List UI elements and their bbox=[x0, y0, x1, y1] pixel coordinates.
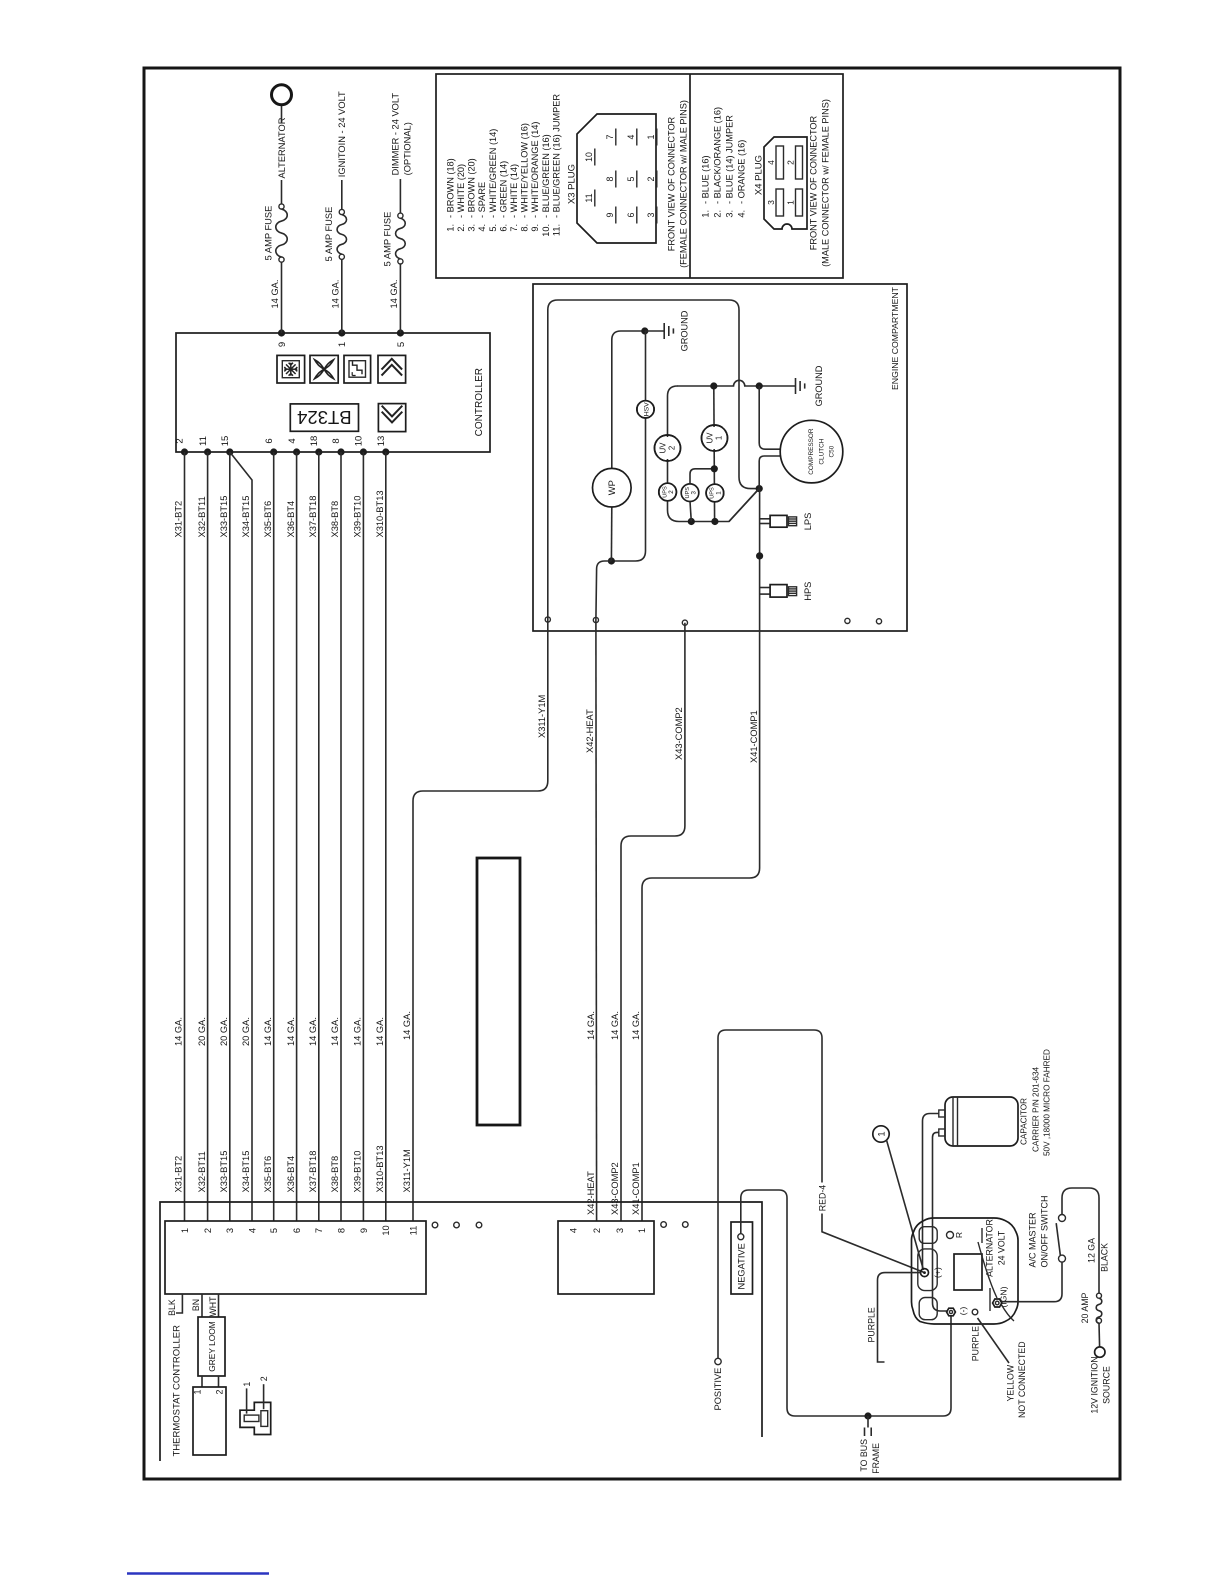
svg-text:3.: 3. bbox=[467, 224, 477, 232]
wire UV2 chain bbox=[668, 386, 760, 522]
svg-text:ON/OFF SWITCH: ON/OFF SWITCH bbox=[1039, 1196, 1049, 1268]
svg-text:2: 2 bbox=[203, 1228, 213, 1233]
svg-text:X42-HEAT: X42-HEAT bbox=[586, 1171, 596, 1215]
svg-text:(-): (-) bbox=[958, 1307, 968, 1316]
svg-text:3: 3 bbox=[690, 490, 697, 494]
svg-text:2: 2 bbox=[646, 176, 656, 181]
svg-text:- BLUE/GREEN (16) JUMPER: - BLUE/GREEN (16) JUMPER bbox=[551, 94, 561, 218]
svg-text:20 GA.: 20 GA. bbox=[241, 1017, 251, 1046]
spare junction rectangle bbox=[477, 858, 520, 1125]
svg-text:- BROWN (20): - BROWN (20) bbox=[467, 158, 477, 218]
svg-text:1: 1 bbox=[180, 1228, 190, 1233]
svg-text:X38-BT8: X38-BT8 bbox=[330, 501, 340, 538]
svg-text:X35-BT6: X35-BT6 bbox=[263, 1156, 273, 1193]
svg-text:- SPARE: - SPARE bbox=[477, 182, 487, 218]
svg-text:14 GA.: 14 GA. bbox=[308, 1017, 318, 1046]
controller pin 13 junction bbox=[382, 448, 389, 455]
svg-text:1: 1 bbox=[637, 1228, 647, 1233]
X3 spare pad 2 bbox=[454, 1222, 460, 1228]
svg-text:IGNITOIN - 24 VOLT: IGNITOIN - 24 VOLT bbox=[337, 91, 347, 177]
svg-text:14 GA.: 14 GA. bbox=[270, 280, 280, 309]
svg-text:13: 13 bbox=[376, 436, 387, 447]
blue footer rule bbox=[127, 1572, 269, 1574]
svg-text:SOURCE: SOURCE bbox=[1101, 1366, 1111, 1404]
svg-text:X39-BT10: X39-BT10 bbox=[353, 1151, 363, 1193]
svg-text:BLK: BLK bbox=[167, 1299, 177, 1316]
page border frame bbox=[144, 68, 1120, 1479]
wire loom to thermostat pin2 bbox=[218, 1376, 220, 1387]
thermostat body bbox=[193, 1387, 226, 1455]
POSITIVE terminal bbox=[715, 1358, 721, 1364]
svg-text:- BLACK/ORANGE (16): - BLACK/ORANGE (16) bbox=[712, 107, 722, 204]
legend box outline bbox=[436, 74, 843, 278]
svg-text:- WHITE/ORANGE (14): - WHITE/ORANGE (14) bbox=[530, 122, 540, 218]
frame ground symbol bbox=[867, 1416, 869, 1428]
wire X37-BT18 bbox=[318, 452, 320, 1221]
spare pad 2 on engine box edge bbox=[876, 619, 881, 624]
pad X311-Y1M on engine box edge bbox=[545, 617, 550, 622]
junction node J1 bbox=[756, 485, 763, 492]
svg-text:5 AMP FUSE: 5 AMP FUSE bbox=[382, 212, 392, 267]
wire loom to thermostat pin1 bbox=[201, 1376, 203, 1387]
svg-text:14 GA.: 14 GA. bbox=[330, 280, 340, 309]
controller BT324 display bbox=[290, 404, 358, 431]
svg-text:10: 10 bbox=[354, 436, 365, 447]
svg-text:DIMMER - 24 VOLT: DIMMER - 24 VOLT bbox=[391, 93, 401, 176]
svg-text:UV: UV bbox=[659, 442, 668, 454]
svg-text:- WHITE/YELLOW (16): - WHITE/YELLOW (16) bbox=[520, 123, 530, 218]
alternator IGN terminal bbox=[993, 1299, 1002, 1307]
svg-text:ALTERNATOR: ALTERNATOR bbox=[277, 117, 287, 178]
pressure switch UPS1 bbox=[706, 484, 724, 502]
junction UV1-bus bbox=[710, 382, 717, 389]
wire UV1 chain bbox=[713, 386, 716, 522]
wire UPS3 to bus bbox=[690, 502, 691, 522]
svg-text:X33-BT15: X33-BT15 bbox=[219, 496, 229, 538]
svg-text:4.: 4. bbox=[736, 210, 746, 218]
capacitor terminal tabs bbox=[939, 1110, 945, 1117]
spare pad 1 on engine box edge bbox=[845, 618, 850, 623]
connector icon pin 2 leader bbox=[263, 1384, 265, 1409]
svg-text:RED-4: RED-4 bbox=[817, 1185, 827, 1212]
svg-text:3.: 3. bbox=[724, 210, 734, 218]
svg-text:1: 1 bbox=[715, 491, 722, 495]
svg-text:14 GA.: 14 GA. bbox=[389, 280, 399, 309]
svg-text:X41-COMP1: X41-COMP1 bbox=[631, 1162, 641, 1215]
pressure switch HPS bbox=[760, 587, 771, 589]
svg-text:POSITIVE: POSITIVE bbox=[713, 1368, 723, 1411]
svg-text:1.: 1. bbox=[700, 210, 710, 218]
svg-text:NOT CONNECTED: NOT CONNECTED bbox=[1017, 1341, 1027, 1418]
svg-text:GROUND: GROUND bbox=[680, 310, 690, 351]
svg-text:24 VOLT: 24 VOLT bbox=[996, 1230, 1006, 1265]
svg-text:PURPLE: PURPLE bbox=[970, 1326, 980, 1361]
controller pin 6 junction bbox=[270, 448, 277, 455]
svg-text:8: 8 bbox=[605, 176, 615, 181]
svg-text:X35-BT6: X35-BT6 bbox=[263, 501, 273, 538]
wire X35-BT6 bbox=[273, 452, 275, 1221]
legend divider bbox=[689, 74, 691, 278]
svg-text:2: 2 bbox=[786, 160, 796, 165]
svg-text:X310-BT13: X310-BT13 bbox=[375, 1145, 385, 1192]
svg-text:PURPLE: PURPLE bbox=[867, 1307, 877, 1342]
svg-text:BLACK: BLACK bbox=[1100, 1243, 1110, 1272]
svg-text:2.: 2. bbox=[456, 224, 466, 232]
wire X36-BT4 bbox=[296, 452, 298, 1221]
svg-text:CAPACITOR: CAPACITOR bbox=[1019, 1098, 1028, 1145]
controller button: defrost/snowflake bbox=[277, 355, 305, 383]
svg-text:X311-Y1M: X311-Y1M bbox=[402, 1149, 412, 1192]
svg-text:- BLUE (16): - BLUE (16) bbox=[700, 155, 710, 204]
wire controller pin5 to dimmer fuse bbox=[399, 264, 401, 333]
controller button: mode/vent bbox=[344, 355, 371, 383]
X4 plug blade pins bbox=[776, 146, 784, 179]
svg-text:11: 11 bbox=[408, 1226, 418, 1236]
alternator terminal circle bbox=[272, 85, 292, 105]
terminal block X3 bbox=[165, 1221, 426, 1294]
wire X310-BT13 bbox=[385, 452, 387, 1221]
controller pin 1 junction bbox=[338, 329, 345, 336]
wire X31-BT2 bbox=[184, 452, 186, 1221]
wire X32-BT11 bbox=[207, 452, 209, 1221]
svg-text:X310-BT13: X310-BT13 bbox=[375, 490, 385, 537]
svg-text:9: 9 bbox=[359, 1228, 369, 1233]
svg-text:1: 1 bbox=[337, 342, 348, 347]
svg-text:X42-HEAT: X42-HEAT bbox=[585, 709, 595, 753]
svg-text:2: 2 bbox=[592, 1228, 602, 1233]
wire WP to ground (top) bbox=[612, 331, 645, 468]
svg-text:14 GA.: 14 GA. bbox=[174, 1017, 184, 1046]
wire UPS3 to UV1 node bbox=[690, 469, 714, 484]
wire switch to fuse bbox=[1062, 1188, 1099, 1293]
wire X42-HEAT run bbox=[595, 620, 598, 1221]
svg-text:6.: 6. bbox=[498, 224, 508, 232]
controller pin 9 junction bbox=[278, 329, 285, 336]
alternator center boss bbox=[954, 1254, 982, 1290]
wire fuse to dimmer source bbox=[399, 179, 401, 213]
controller box bbox=[176, 333, 490, 452]
svg-text:5: 5 bbox=[396, 342, 407, 347]
wire X41-COMP1 trunk (LPS/HPS chain) bbox=[642, 489, 760, 1221]
wire capacitor + to alternator + bbox=[923, 1114, 939, 1270]
wire BN bbox=[201, 1294, 203, 1317]
svg-text:GROUND: GROUND bbox=[814, 365, 824, 406]
svg-text:CARRIER P/N 201-634: CARRIER P/N 201-634 bbox=[1031, 1066, 1040, 1152]
alternator (+) terminal bbox=[921, 1269, 929, 1277]
svg-text:- WHITE (14): - WHITE (14) bbox=[509, 164, 519, 218]
svg-text:2: 2 bbox=[668, 446, 677, 450]
junction UPS3-UV1 bbox=[711, 465, 718, 472]
thermostat connector icon bbox=[240, 1402, 271, 1434]
wire controller pin1 to ignition fuse bbox=[341, 259, 343, 333]
svg-text:CONTROLLER: CONTROLLER bbox=[474, 368, 485, 436]
svg-text:6: 6 bbox=[264, 438, 275, 443]
svg-text:(MALE CONNECTOR w/ FEMALE PINS: (MALE CONNECTOR w/ FEMALE PINS) bbox=[821, 99, 831, 267]
svg-text:1: 1 bbox=[715, 436, 724, 440]
ground G1 symbol bbox=[645, 330, 664, 332]
controller pin 11 junction bbox=[204, 448, 211, 455]
svg-text:(IGN): (IGN) bbox=[999, 1286, 1009, 1307]
wire HSV branch bbox=[611, 331, 645, 561]
svg-text:5: 5 bbox=[626, 176, 636, 181]
wire controller pin9 to alternator fuse bbox=[281, 262, 283, 333]
svg-text:X4 PLUG: X4 PLUG bbox=[753, 155, 764, 195]
wire compressor terminal B bbox=[759, 456, 780, 489]
controller pin 15 junction bbox=[226, 448, 233, 455]
svg-text:3: 3 bbox=[766, 200, 776, 205]
svg-text:1: 1 bbox=[786, 200, 796, 205]
svg-text:THERMOSTAT CONTROLLER: THERMOSTAT CONTROLLER bbox=[172, 1325, 183, 1457]
svg-text:X32-BT11: X32-BT11 bbox=[197, 1151, 207, 1192]
svg-text:- GREEN (14): - GREEN (14) bbox=[498, 161, 508, 218]
compressor clutch bbox=[780, 420, 843, 483]
svg-text:1: 1 bbox=[646, 134, 656, 139]
alternator R terminal bbox=[947, 1232, 954, 1239]
wire WHT bbox=[218, 1294, 220, 1317]
X4 spare pad 1 bbox=[661, 1222, 667, 1228]
harness boundary box bbox=[160, 1202, 762, 1461]
svg-text:8.: 8. bbox=[520, 224, 530, 232]
svg-text:X39-BT10: X39-BT10 bbox=[353, 496, 363, 538]
solenoid valve HSV bbox=[637, 401, 654, 418]
alternator vent slot B bbox=[918, 1249, 937, 1291]
svg-text:WHT: WHT bbox=[208, 1296, 218, 1317]
svg-text:3: 3 bbox=[646, 212, 656, 217]
svg-text:(OPTIONAL): (OPTIONAL) bbox=[403, 122, 413, 175]
wire diagonal J1 to UPS bus bbox=[729, 489, 759, 522]
controller button: fan bbox=[310, 355, 338, 383]
junction compressor feed node bbox=[756, 382, 763, 389]
wire positive RED-4 bbox=[718, 1030, 822, 1358]
A/C master switch bbox=[1059, 1255, 1066, 1262]
junction bus-UPS3 bbox=[688, 518, 695, 525]
valve UV1 bbox=[702, 425, 728, 451]
svg-text:X38-BT8: X38-BT8 bbox=[330, 1156, 340, 1193]
svg-text:12V IGNITION: 12V IGNITION bbox=[1089, 1356, 1099, 1413]
svg-text:LPS: LPS bbox=[803, 513, 813, 531]
svg-text:X43-COMP2: X43-COMP2 bbox=[674, 707, 684, 760]
svg-text:X31-BT2: X31-BT2 bbox=[174, 1156, 184, 1193]
wire outer loop (Y1M feed) bbox=[548, 300, 759, 620]
capacitor body bbox=[945, 1097, 1018, 1146]
svg-text:NEGATIVE: NEGATIVE bbox=[736, 1243, 746, 1289]
rotated schematic sheet (landscape drawn, rotated -90) bbox=[127, 68, 1120, 1574]
svg-text:X36-BT4: X36-BT4 bbox=[286, 501, 296, 538]
controller pin 8 junction bbox=[337, 448, 344, 455]
grey loom bbox=[198, 1317, 225, 1376]
svg-text:X41-COMP1: X41-COMP1 bbox=[749, 710, 759, 763]
alternator (-) terminal bbox=[947, 1308, 956, 1316]
svg-text:4: 4 bbox=[247, 1228, 257, 1233]
wire fuse to alternator terminal bbox=[281, 180, 283, 204]
svg-text:14 GA.: 14 GA. bbox=[586, 1011, 596, 1040]
svg-text:X37-BT18: X37-BT18 bbox=[308, 1151, 318, 1193]
alternator vent slot A bbox=[919, 1227, 937, 1244]
pad X43-COMP2 on engine box edge bbox=[682, 620, 687, 625]
controller pin 18 junction bbox=[315, 448, 322, 455]
svg-text:- WHITE (20): - WHITE (20) bbox=[456, 164, 466, 218]
junction bus-UPS1 bbox=[711, 518, 718, 525]
fuse F-DIM 5 AMP bbox=[398, 259, 403, 264]
note callout 1 bbox=[873, 1126, 889, 1142]
terminal block X4 bbox=[558, 1221, 654, 1294]
svg-text:7: 7 bbox=[605, 134, 615, 139]
svg-text:TO BUS: TO BUS bbox=[859, 1439, 869, 1472]
svg-text:3: 3 bbox=[225, 1228, 235, 1233]
svg-text:10: 10 bbox=[584, 152, 594, 162]
NEGATIVE terminal box bbox=[731, 1222, 753, 1294]
svg-text:- BROWN (18): - BROWN (18) bbox=[445, 158, 455, 218]
svg-text:8: 8 bbox=[336, 1228, 346, 1233]
svg-text:5 AMP FUSE: 5 AMP FUSE bbox=[264, 206, 274, 261]
svg-text:WP: WP bbox=[607, 480, 617, 495]
wire X38-BT8 bbox=[340, 452, 342, 1221]
svg-text:X36-BT4: X36-BT4 bbox=[286, 1156, 296, 1193]
X3 spare pad 1 bbox=[432, 1222, 438, 1228]
svg-text:18: 18 bbox=[309, 436, 320, 447]
wire purple from (+) bbox=[878, 1273, 921, 1362]
svg-text:10.: 10. bbox=[541, 224, 551, 237]
wire X43-COMP2 run bbox=[621, 623, 685, 1221]
wire X42-HEAT inside box bbox=[596, 561, 612, 620]
12V ignition source terminal bbox=[1095, 1347, 1105, 1357]
svg-text:X43-COMP2: X43-COMP2 bbox=[610, 1162, 620, 1215]
svg-text:15: 15 bbox=[220, 436, 231, 447]
svg-text:4: 4 bbox=[766, 160, 776, 165]
wire BLK stub bbox=[176, 1294, 182, 1313]
svg-text:2: 2 bbox=[668, 490, 675, 494]
svg-text:1: 1 bbox=[877, 1131, 887, 1136]
svg-text:R: R bbox=[954, 1232, 964, 1238]
svg-text:14 GA.: 14 GA. bbox=[353, 1017, 363, 1046]
svg-text:X311-Y1M: X311-Y1M bbox=[537, 695, 547, 738]
wire IGN to switch bbox=[1002, 1262, 1062, 1302]
svg-text:4: 4 bbox=[568, 1228, 578, 1233]
svg-text:FRONT VIEW OF CONNECTOR: FRONT VIEW OF CONNECTOR bbox=[809, 115, 819, 250]
svg-text:14 GA.: 14 GA. bbox=[610, 1011, 620, 1040]
wire compressor terminal A bbox=[759, 386, 780, 449]
alternator purple terminal bbox=[972, 1309, 978, 1315]
svg-text:3: 3 bbox=[615, 1228, 625, 1233]
controller pin 5 junction bbox=[397, 329, 404, 336]
alternator 24V device outline bbox=[912, 1218, 1019, 1324]
alternator inner contour arcs bbox=[978, 1242, 997, 1298]
pressure switch LPS bbox=[760, 518, 771, 520]
svg-text:1: 1 bbox=[192, 1389, 202, 1394]
svg-text:9: 9 bbox=[605, 212, 615, 217]
svg-text:4: 4 bbox=[626, 134, 636, 139]
svg-text:7: 7 bbox=[314, 1228, 324, 1233]
junction bus frame bbox=[864, 1412, 871, 1419]
fuse F-ALT 5 AMP bbox=[279, 257, 284, 262]
svg-text:FRAME: FRAME bbox=[871, 1443, 881, 1474]
svg-text:4: 4 bbox=[287, 438, 298, 443]
svg-text:2: 2 bbox=[175, 438, 186, 443]
wire X33-BT15 bbox=[229, 452, 231, 1221]
svg-text:X33-BT15: X33-BT15 bbox=[219, 1151, 229, 1193]
svg-text:14 GA.: 14 GA. bbox=[286, 1017, 296, 1046]
svg-text:2: 2 bbox=[259, 1376, 269, 1381]
pressure switch UPS3 bbox=[681, 484, 699, 502]
junction WP node bbox=[608, 557, 615, 564]
svg-text:11: 11 bbox=[584, 193, 594, 202]
svg-text:7.: 7. bbox=[509, 224, 519, 232]
svg-text:YELLOW: YELLOW bbox=[1005, 1364, 1015, 1401]
svg-text:12 GA: 12 GA bbox=[1087, 1238, 1097, 1263]
engine compartment box bbox=[533, 284, 907, 631]
fuse F-IGN 5 AMP bbox=[339, 254, 344, 259]
svg-text:20 AMP: 20 AMP bbox=[1080, 1292, 1090, 1323]
svg-text:14 GA.: 14 GA. bbox=[402, 1011, 412, 1040]
X4 plug connector outline bbox=[764, 137, 807, 229]
wire X311-Y1M down run bbox=[413, 620, 548, 1222]
svg-text:X3 PLUG: X3 PLUG bbox=[567, 164, 578, 204]
svg-text:20 GA.: 20 GA. bbox=[197, 1017, 207, 1046]
svg-text:- WHITE/GREEN (14): - WHITE/GREEN (14) bbox=[488, 129, 498, 218]
svg-text:X31-BT2: X31-BT2 bbox=[174, 501, 184, 538]
controller button: up chevrons bbox=[378, 355, 406, 383]
alternator vent slot C bbox=[919, 1298, 937, 1320]
wire negative to bus frame bbox=[741, 1190, 951, 1416]
svg-text:X34-BT15: X34-BT15 bbox=[241, 1151, 251, 1193]
svg-text:14 GA.: 14 GA. bbox=[263, 1017, 273, 1046]
svg-text:A/C MASTER: A/C MASTER bbox=[1027, 1212, 1037, 1268]
svg-text:FRONT VIEW OF CONNECTOR: FRONT VIEW OF CONNECTOR bbox=[667, 116, 677, 251]
wire fuse to ignition source bbox=[341, 180, 343, 209]
water pump WP bbox=[593, 468, 632, 507]
label ALTERNATOR 24 VOLT bbox=[981, 1228, 983, 1243]
fuse 20 AMP bbox=[1097, 1293, 1102, 1298]
svg-text:X37-BT18: X37-BT18 bbox=[308, 496, 318, 538]
svg-text:- ORANGE (16): - ORANGE (16) bbox=[736, 140, 746, 204]
label (IGN) bbox=[989, 1288, 991, 1311]
controller button: down chevrons bbox=[378, 404, 405, 432]
svg-text:HSV: HSV bbox=[643, 402, 650, 416]
svg-text:4.: 4. bbox=[477, 224, 487, 232]
wire capacitor - to alternator - bbox=[933, 1132, 948, 1311]
wire X39-BT10 bbox=[362, 452, 364, 1221]
svg-text:HPS: HPS bbox=[803, 582, 813, 601]
svg-text:X34-BT15: X34-BT15 bbox=[241, 496, 251, 538]
X3 plug connector outline bbox=[577, 114, 656, 243]
svg-text:50V ,18000 MICRO FAHRED: 50V ,18000 MICRO FAHRED bbox=[1042, 1049, 1051, 1156]
svg-text:COMPRESSOR: COMPRESSOR bbox=[808, 428, 815, 475]
UPS/ground bus with wire hop bbox=[677, 380, 796, 386]
svg-text:C50: C50 bbox=[829, 445, 836, 457]
svg-text:11.: 11. bbox=[551, 224, 561, 236]
pressure switch UPS2 bbox=[659, 483, 677, 501]
leader YELLOW not connected bbox=[978, 1318, 1010, 1363]
X4 spare pad 2 bbox=[683, 1222, 689, 1228]
svg-text:X32-BT11: X32-BT11 bbox=[197, 496, 207, 537]
svg-text:(FEMALE CONNECTOR w/ MALE PINS: (FEMALE CONNECTOR w/ MALE PINS) bbox=[679, 100, 689, 268]
wire X34-BT15 branch from pin 15 bbox=[230, 452, 252, 1221]
wire WP bottom bbox=[610, 507, 612, 561]
svg-text:- BLUE/GREEN (16): - BLUE/GREEN (16) bbox=[541, 134, 551, 218]
svg-text:GREY LOOM: GREY LOOM bbox=[207, 1321, 217, 1372]
pad X42-HEAT on engine box edge bbox=[593, 617, 598, 622]
svg-text:11: 11 bbox=[198, 436, 209, 446]
junction ground node bbox=[641, 327, 648, 334]
valve UV2 bbox=[655, 435, 681, 461]
X3 spare pad 3 bbox=[476, 1222, 482, 1228]
svg-text:1: 1 bbox=[242, 1382, 252, 1387]
svg-text:CLUTCH: CLUTCH bbox=[818, 438, 825, 464]
svg-text:10: 10 bbox=[381, 1225, 391, 1235]
svg-text:(+): (+) bbox=[932, 1267, 942, 1278]
svg-text:BN: BN bbox=[191, 1299, 201, 1311]
svg-text:BT324: BT324 bbox=[297, 407, 352, 428]
